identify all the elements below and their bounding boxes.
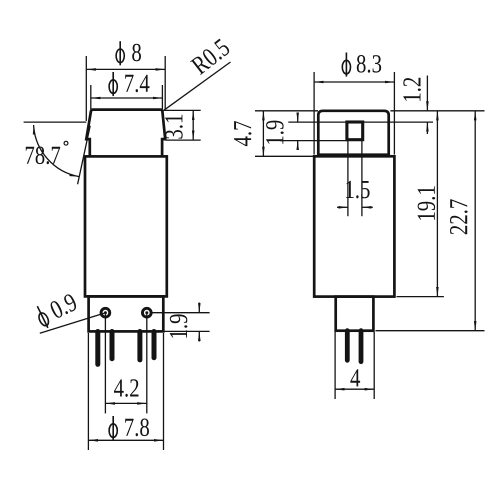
dim 3.1 line xyxy=(192,110,194,140)
label phi7.8 xyxy=(109,416,149,440)
dim 4.2 ext lines xyxy=(104,313,106,413)
dim 4 line xyxy=(335,388,374,390)
hole right xyxy=(142,308,151,317)
body rectangle xyxy=(85,156,167,296)
pin 3 xyxy=(137,332,142,360)
dim phi8.3 ext lines xyxy=(313,72,315,155)
dim 19.1 ext line xyxy=(397,296,444,298)
dim phi7.4 ext lines xyxy=(90,85,92,109)
label 78.7 xyxy=(26,147,60,165)
pin b xyxy=(359,331,364,362)
label 1.9R xyxy=(266,121,284,144)
pin 4 xyxy=(152,332,157,358)
label 1.9L xyxy=(170,314,188,337)
dim 19.1 line xyxy=(436,111,438,297)
dim 1.5 arrows xyxy=(337,206,348,208)
angle arc xyxy=(34,125,79,177)
label 4 xyxy=(350,369,360,386)
dim 4.7 ext lines xyxy=(255,110,318,112)
dim 22.7 line xyxy=(474,111,476,331)
dim 3.1 ext lines xyxy=(164,109,201,111)
leader R0.5 xyxy=(163,62,230,111)
angle slope line xyxy=(78,126,91,185)
body xyxy=(314,156,394,296)
dim phi7.8 line xyxy=(88,439,163,441)
label phi7.4 xyxy=(109,72,149,96)
square bottom ext line xyxy=(280,140,347,142)
square top ext line xyxy=(288,121,433,123)
base xyxy=(336,297,374,331)
pin a xyxy=(345,331,350,361)
dim 4.7 line xyxy=(262,111,264,157)
dim 4.2 line xyxy=(105,402,146,404)
dim 1.9L ext lines xyxy=(153,312,210,314)
label 3.1 xyxy=(165,115,183,139)
cap rounded rect xyxy=(318,111,388,155)
leader phi0.9 xyxy=(40,313,104,333)
pin 2 xyxy=(110,332,115,359)
label phi8.3 xyxy=(342,53,381,77)
label 4.2 xyxy=(114,379,139,397)
dim 1.2 arrows xyxy=(426,76,428,111)
dim 4 ext lines xyxy=(334,332,336,399)
dim phi8.3 line xyxy=(314,81,394,83)
dim phi7.4 line xyxy=(91,97,163,99)
lens cap outline xyxy=(86,110,165,156)
angle horizontal line xyxy=(24,121,87,123)
cap top ext line (shared 1.2/19.1/22.7) xyxy=(390,110,484,112)
dim phi8 line xyxy=(86,68,165,70)
dim phi8 ext lines xyxy=(85,56,87,121)
label phi8 xyxy=(116,41,141,65)
label 1.2 xyxy=(403,78,421,101)
hole left xyxy=(101,308,110,317)
label 1.5 xyxy=(346,181,369,199)
dim 1.5 ext lines xyxy=(347,141,349,217)
pin 1 xyxy=(95,332,100,365)
degree circle xyxy=(64,141,68,145)
dim 22.7 ext line xyxy=(376,330,485,332)
flange xyxy=(89,296,164,331)
LABELS START xyxy=(26,38,468,440)
dim 1.9R arrows xyxy=(297,113,299,122)
label 4.7 xyxy=(234,121,252,146)
label phi0.9 xyxy=(34,291,80,330)
label 22.7 xyxy=(450,199,468,234)
label 19.1 xyxy=(418,186,436,219)
label R0.5 xyxy=(190,38,231,76)
dim phi7.8 ext lines xyxy=(87,333,89,450)
dim 1.9L arrows xyxy=(198,303,200,313)
window square xyxy=(347,122,363,140)
